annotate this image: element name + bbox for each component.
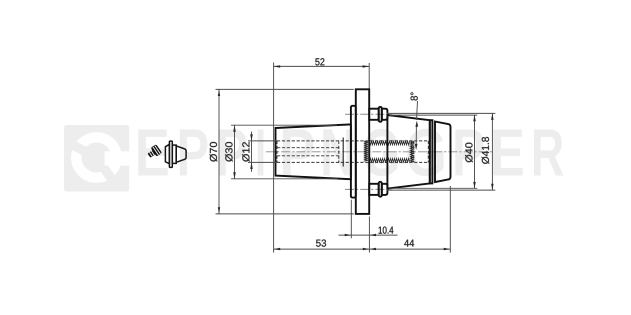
nub centerline top bbox=[345, 113, 392, 115]
watermark text EPPINGER style bbox=[138, 129, 563, 176]
icon wrench blob bbox=[146, 144, 162, 160]
flange bbox=[356, 89, 369, 214]
bore dashed lines bbox=[277, 140, 428, 142]
thread zigzag bbox=[370, 141, 410, 145]
nub centerline bottom bbox=[345, 188, 392, 190]
8 deg label bbox=[411, 92, 419, 150]
gripper collar bbox=[351, 106, 356, 198]
8 deg leader bbox=[417, 101, 418, 120]
top nub bbox=[369, 107, 387, 122]
dim 10.4 bbox=[339, 200, 398, 253]
bore step solid line bbox=[342, 138, 344, 167]
dim 52 bbox=[274, 58, 370, 252]
icon mini holder bbox=[165, 141, 186, 167]
watermark logo square bbox=[64, 125, 129, 192]
dim O12 bbox=[242, 132, 277, 172]
centerline main bbox=[266, 151, 494, 153]
cone (SK taper) bbox=[276, 124, 351, 179]
dim O40 bbox=[390, 115, 478, 189]
bottom nub bbox=[369, 182, 387, 197]
end cap bbox=[435, 122, 451, 183]
dim 53 and 44 bbox=[274, 186, 451, 253]
dim O41.8 bbox=[387, 113, 496, 190]
dim O70 bbox=[210, 89, 354, 213]
watermark logo swirl bbox=[71, 132, 122, 183]
dim O30 bbox=[225, 125, 338, 179]
body taper 8deg bbox=[387, 115, 429, 189]
groove ring bbox=[430, 120, 433, 183]
